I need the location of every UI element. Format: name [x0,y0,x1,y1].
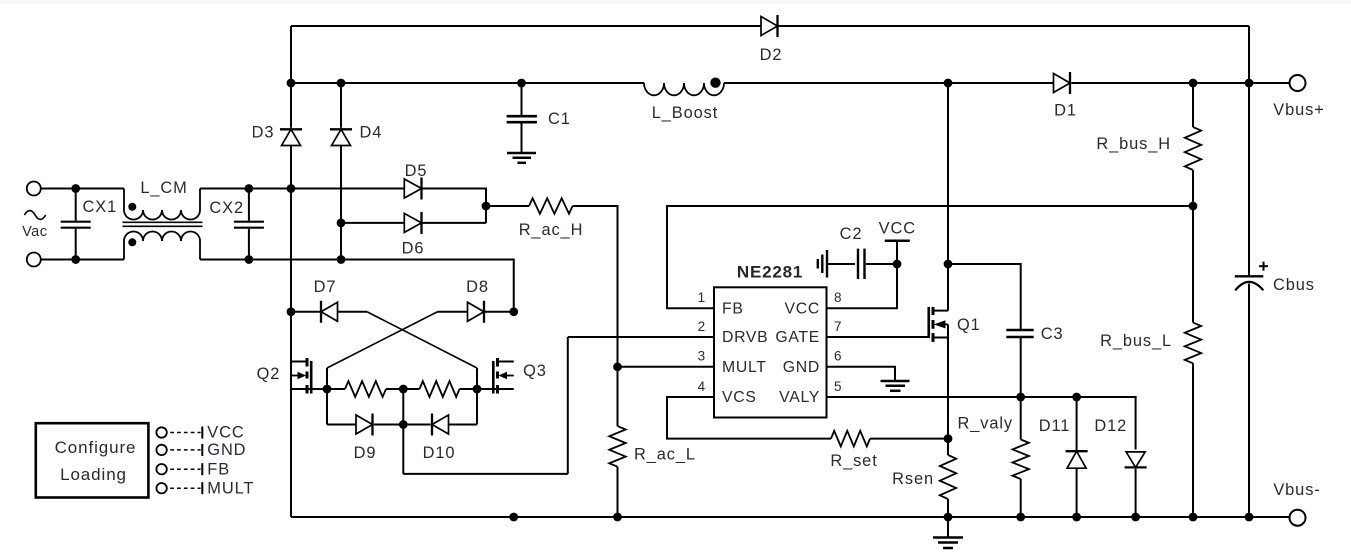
wire main bus mid [724,82,1054,84]
svg-text:Loading: Loading [60,465,127,484]
diode D3 [282,129,301,145]
resistor R_ac_H [529,198,573,214]
svg-text:MULT: MULT [207,479,254,497]
terminal Vbus+ [1290,75,1306,91]
wire FB to divider [667,206,1193,308]
AC source symbol [24,211,45,220]
wire cross diagonal A [367,312,477,368]
IC U1 NE2281 box [714,287,827,417]
wire D5 to corner [422,189,487,223]
inductor L_CM bottom winding [124,232,200,260]
Configure Loading box [36,423,149,497]
diode D7 [321,302,338,321]
node MULT tap [613,362,622,371]
svg-text:FB: FB [207,460,230,478]
wire Q1 drain [947,83,949,311]
svg-text:Vbus+: Vbus+ [1273,101,1324,119]
diode D4 [332,129,351,145]
diode D1 [1054,74,1071,93]
config dashed wire FB [170,468,200,470]
diode D6 [404,213,421,232]
svg-text:FB: FB [722,300,744,317]
node D4 top [337,79,346,88]
wire DRVB vertical [567,337,569,474]
inductor L_Boost [644,83,724,95]
svg-text:D6: D6 [402,240,425,258]
config tick MULT [201,482,203,494]
node C3 tap [944,260,953,269]
node bottom Rsen [944,513,953,522]
wire D10 from mid [403,424,430,426]
svg-text:VALY: VALY [779,389,820,406]
svg-text:Vbus-: Vbus- [1273,481,1320,499]
svg-text:R_set: R_set [830,452,877,470]
node AC top at rail [287,184,296,193]
svg-text:VCC: VCC [785,300,820,317]
svg-text:Q3: Q3 [523,362,547,380]
wire GATE pin7 [827,336,929,338]
svg-text:L_Boost: L_Boost [652,104,718,122]
node D8 right [509,307,518,316]
svg-text:4: 4 [698,379,706,394]
config tick FB [201,463,203,475]
terminal Vac bottom [27,253,41,267]
wire mid vertical to DRVB [402,389,404,474]
wire D10 anode-side [449,424,478,426]
svg-text:Vac: Vac [22,224,47,240]
node bottom Cbus [1245,513,1254,522]
diode D5 [404,179,421,198]
svg-text:D3: D3 [252,124,275,142]
diode D2 [761,17,778,36]
wire main bus left [291,82,644,84]
wire DRVB horizontal [403,473,568,475]
svg-text:C1: C1 [548,110,571,128]
node CX1 top [71,184,80,193]
node gate mid [399,385,408,394]
resistor R_bus_L [1192,206,1194,323]
svg-text:VCC: VCC [207,424,244,442]
svg-text:MULT: MULT [722,359,767,376]
node FB divider [1189,202,1198,211]
wire D2 to right corner [779,25,1250,27]
resistor R_valy [1020,397,1022,440]
svg-text:R_ac_H: R_ac_H [519,221,584,239]
wire R_ac_H left [486,205,529,207]
wire D8 cathode-side [484,311,514,313]
config dashed wire VCC [170,432,200,434]
wire gate mid join [386,388,420,390]
L_CM phase dot top [128,203,136,211]
svg-text:CX1: CX1 [83,198,118,216]
wire C3 top [948,264,1021,329]
svg-text:D9: D9 [354,444,377,462]
page top border strip [0,0,1351,3]
svg-text:CX2: CX2 [209,199,244,217]
wire D7 anode-side [291,311,320,313]
config dashed wire MULT [170,487,200,489]
svg-text:NE2281: NE2281 [737,263,803,282]
wire node A vertical [326,368,328,425]
terminal Vbus- [1290,510,1306,526]
svg-text:D8: D8 [466,278,489,296]
svg-text:C3: C3 [1041,325,1064,343]
svg-text:R_ac_L: R_ac_L [634,446,696,464]
wire AC top after L_CM [200,188,404,190]
L_Boost phase dot [710,78,720,88]
wire VCS pin4 [667,397,831,439]
resistor Rsen [947,439,949,455]
wire main bus right [1072,82,1290,84]
node CX1 bottom [71,255,80,264]
svg-text:1: 1 [698,290,706,305]
svg-text:8: 8 [834,290,842,305]
wire left vertical rail lower [290,146,292,518]
node bottom R_ac_L [613,513,622,522]
wire D6 to corner [422,222,487,224]
node VCC junction [893,260,902,269]
wire bottom rail [291,516,1290,518]
svg-text:D7: D7 [314,278,337,296]
node bottom D8 branch [509,513,518,522]
svg-text:Cbus: Cbus [1273,276,1315,294]
svg-text:VCC: VCC [879,220,916,238]
wire R_ac_L bottom [617,467,619,517]
svg-text:3: 3 [698,349,706,364]
node D4 bottom [337,255,346,264]
svg-text:GND: GND [207,441,246,459]
resistor R_bus_H [1192,83,1194,127]
config terminal MULT [156,483,166,493]
terminal Vac top [27,182,41,196]
diode D8 [468,302,485,321]
wire GND pin6 [827,367,896,381]
inductor L_CM top winding [124,189,200,220]
config terminal VCC [156,427,166,437]
wire MULT pin3 [618,366,715,368]
wire D8 from cross [438,311,468,313]
node D11 top [1072,393,1081,402]
svg-text:Q2: Q2 [257,365,281,383]
node bottom R_valy [1016,513,1025,522]
node bottom R_bus_L [1189,513,1198,522]
svg-text:Configure: Configure [55,438,137,457]
wire Cbus vertical top [1248,26,1250,275]
config tick GND [201,444,203,456]
svg-text:GATE: GATE [775,329,820,346]
capacitor C2 [827,263,855,265]
svg-text:D12: D12 [1094,417,1127,435]
Cbus plus sign [1259,265,1268,267]
svg-text:D2: D2 [760,46,783,64]
node gate B [473,385,482,394]
svg-text:D4: D4 [360,124,383,142]
svg-text:Rsen: Rsen [892,470,934,488]
node CX2 bottom [245,255,254,264]
svg-text:R_valy: R_valy [957,415,1013,433]
resistor R_set [831,431,870,447]
wire AC bottom [41,259,124,261]
wire left vertical rail upper [290,26,292,128]
svg-text:D11: D11 [1039,417,1071,435]
svg-text:GND: GND [783,359,820,376]
wire AC bottom after L_CM [200,260,514,312]
wire cross diagonal B [327,312,438,368]
svg-text:C2: C2 [840,225,863,243]
capacitor Cbus [1235,275,1264,277]
L_CM phase dot bottom [128,238,136,246]
wire D11 bottom [1076,468,1078,517]
wire R_ac_H to vertical [573,206,618,426]
capacitor CX1 [75,189,77,221]
node CX2 top [245,184,254,193]
transistor Q2 [291,361,307,363]
diode D12 [1126,452,1145,468]
wire VCC pin8 [827,264,898,308]
svg-text:D1: D1 [1054,102,1077,120]
node bus Cbus top [1245,79,1254,88]
svg-text:5: 5 [834,379,842,394]
config terminal FB [156,464,166,474]
node D9 D10 mid [399,420,408,429]
node C1 top [517,79,526,88]
svg-text:R_bus_L: R_bus_L [1100,332,1172,350]
svg-text:Q1: Q1 [957,316,981,334]
svg-text:7: 7 [834,319,842,334]
capacitor CX2 [248,189,250,221]
node bottom D12 [1131,513,1140,522]
power VCC symbol [896,241,898,264]
wire node B vertical [476,368,478,425]
node gate A [323,385,332,394]
node R_valy top [1016,393,1025,402]
wire D9 anode-side [327,424,356,426]
node D6 tap [337,219,346,228]
node R_ac_H tap [482,202,491,211]
svg-text:VCS: VCS [722,389,757,406]
node Q1 drain top [944,79,953,88]
resistor R_ac_L [609,426,625,467]
config dashed wire GND [170,449,200,451]
wire D6 feed [341,222,404,224]
diode D11 [1067,451,1086,468]
capacitor C3 [1006,329,1033,332]
transistor Q3 [498,361,514,363]
wire Q1 source [947,324,949,438]
node bottom D11 [1072,513,1081,522]
node D7 left [287,307,296,316]
wire D11 top [1076,397,1078,450]
ground main [947,517,949,538]
wire D4 branch upper [340,83,342,128]
resistor R gate right [420,381,460,397]
wire AC top [41,188,124,190]
svg-text:L_CM: L_CM [140,179,187,197]
svg-text:2: 2 [698,319,706,334]
config tick VCC [201,427,203,439]
node bus R divider top [1189,79,1198,88]
node D3 top [287,79,296,88]
node R_set Rsen [944,434,953,443]
wire D4 branch lower [340,146,342,260]
svg-text:6: 6 [834,349,842,364]
wire D12 bottom [1135,469,1137,517]
ground at C2 left [826,250,828,278]
svg-text:DRVB: DRVB [722,329,768,346]
svg-text:D10: D10 [423,444,456,462]
wire top rail to D2 [291,25,761,27]
L_CM core [123,221,203,223]
diode D10 [432,415,449,434]
ground at C1 [507,152,536,155]
transistor Q1 [927,307,930,338]
config terminal GND [156,445,166,455]
svg-text:D5: D5 [405,162,428,180]
ground at pin6 [881,380,910,383]
wire VALY pin5 [827,397,1136,450]
diode D9 [356,415,373,434]
wire D7 to cross [338,311,368,313]
capacitor C1 [521,83,523,115]
wire R_set to Rsen [870,438,948,440]
resistor R gate left [345,381,386,397]
wire D9 to mid [374,424,403,426]
svg-text:R_bus_H: R_bus_H [1096,135,1171,153]
wire DRVB to pin2 [568,336,714,338]
